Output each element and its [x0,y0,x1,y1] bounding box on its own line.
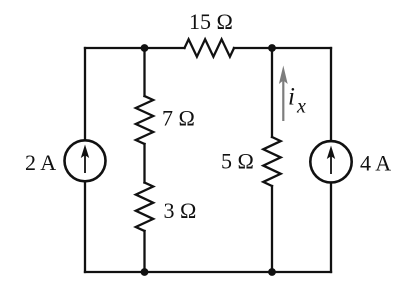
resistor R3 3ohm zigzag [136,183,153,232]
resistor R1 15ohm zigzag [185,39,235,56]
current source I1 2A arrow [81,145,89,174]
svg-text:4 A: 4 A [360,151,391,176]
node dot bottom middle [141,268,149,276]
svg-text:i: i [288,84,295,111]
wire left rail top [84,48,86,140]
svg-text:3 Ω: 3 Ω [164,198,197,223]
svg-text:7 Ω: 7 Ω [162,106,195,131]
node dot top middle [141,44,149,52]
svg-text:2 A: 2 A [25,150,56,175]
wire right rail top [330,48,332,141]
current source I1 2A circle [65,140,106,181]
wire right rail bottom [330,183,332,273]
node dot bottom right-middle [268,268,276,276]
wire top rail left segment [85,47,185,49]
node dot top right-middle [268,44,276,52]
wire middle branch bottom [143,231,145,272]
current ix arrow [279,66,288,122]
current source I2 4A arrow [327,146,335,175]
svg-text:5 Ω: 5 Ω [221,149,254,174]
wire middle branch between resistors [143,144,145,183]
wire top rail right segment [234,47,331,49]
resistor R4 5ohm zigzag [263,137,280,186]
wire 5ohm branch top [271,48,273,137]
wire left rail bottom [84,182,86,272]
current source I2 4A circle [310,141,351,182]
resistor R2 7ohm zigzag [136,96,153,144]
wire middle branch top [143,48,145,96]
wire bottom rail [85,271,331,273]
svg-text:x: x [296,96,306,118]
wire 5ohm branch bottom [271,186,273,272]
svg-text:15 Ω: 15 Ω [189,9,233,34]
